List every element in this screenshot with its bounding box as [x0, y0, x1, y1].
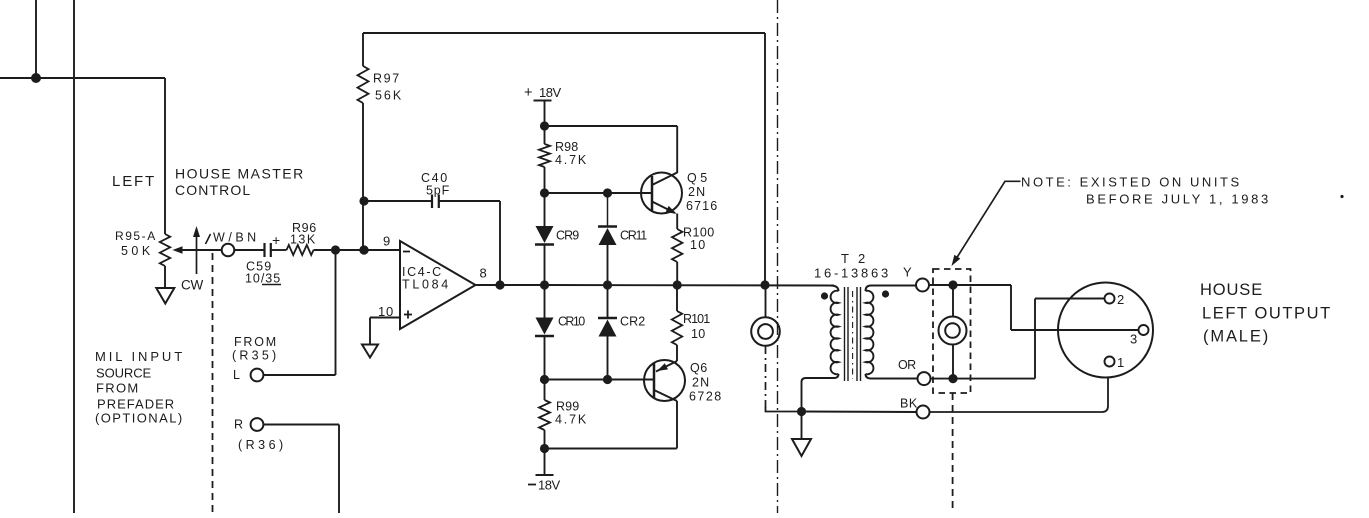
svg-text:Q6: Q6	[690, 361, 708, 375]
svg-text:(OPTIONAL): (OPTIONAL)	[95, 411, 183, 426]
svg-text:+: +	[272, 232, 281, 248]
svg-text:CR9: CR9	[556, 229, 580, 243]
svg-text:OR: OR	[898, 358, 917, 372]
svg-text:FROM: FROM	[234, 335, 277, 349]
svg-text:9: 9	[383, 234, 391, 249]
svg-text:R101: R101	[683, 312, 711, 326]
svg-text:Y: Y	[903, 265, 912, 280]
svg-text:HOUSE: HOUSE	[1200, 281, 1263, 299]
svg-text:8: 8	[480, 266, 488, 281]
svg-text:16-13863: 16-13863	[814, 266, 889, 281]
svg-text:(MALE): (MALE)	[1203, 328, 1269, 346]
svg-text:R: R	[234, 418, 244, 432]
svg-text:CONTROL: CONTROL	[175, 182, 251, 198]
svg-text:W/BN: W/BN	[213, 231, 257, 245]
svg-text:56K: 56K	[375, 89, 402, 103]
svg-text:4.7K: 4.7K	[555, 413, 587, 427]
svg-text:T 2: T 2	[841, 251, 866, 266]
svg-text:PREFADER: PREFADER	[97, 397, 175, 412]
svg-text:6716: 6716	[686, 199, 718, 213]
svg-text:18V: 18V	[539, 85, 562, 100]
svg-text:BEFORE JULY 1, 1983: BEFORE JULY 1, 1983	[1086, 192, 1269, 207]
svg-text:CW: CW	[181, 278, 204, 293]
svg-text:+: +	[524, 85, 533, 101]
svg-text:FROM: FROM	[96, 381, 139, 396]
svg-text:NOTE: EXISTED ON UNITS: NOTE: EXISTED ON UNITS	[1021, 175, 1240, 190]
svg-text:CR11: CR11	[620, 229, 648, 243]
svg-text:CR10: CR10	[558, 315, 586, 329]
svg-text:6728: 6728	[689, 390, 722, 404]
svg-text:SOURCE: SOURCE	[96, 366, 152, 381]
svg-text:4.7K: 4.7K	[555, 153, 587, 167]
svg-text:13K: 13K	[290, 233, 316, 247]
svg-text:R98: R98	[555, 140, 579, 154]
svg-text:2N: 2N	[692, 376, 710, 390]
svg-text:10: 10	[691, 327, 706, 341]
svg-text:Q5: Q5	[687, 171, 708, 185]
svg-text:50K: 50K	[121, 244, 151, 258]
svg-text:CR2: CR2	[620, 315, 646, 329]
svg-text:BK: BK	[900, 397, 918, 411]
svg-text:5pF: 5pF	[426, 184, 450, 198]
svg-text:LEFT OUTPUT: LEFT OUTPUT	[1202, 305, 1331, 323]
svg-text:2: 2	[1117, 292, 1125, 307]
svg-text:MIL INPUT: MIL INPUT	[95, 349, 183, 364]
svg-text:HOUSE MASTER: HOUSE MASTER	[175, 166, 304, 182]
svg-text:10: 10	[690, 238, 706, 252]
svg-text:R99: R99	[556, 400, 580, 414]
svg-text:3: 3	[1130, 332, 1138, 347]
svg-text:R97: R97	[373, 72, 400, 86]
svg-text:10/35: 10/35	[245, 272, 281, 286]
svg-text:18V: 18V	[538, 478, 561, 493]
svg-text:L: L	[233, 368, 241, 382]
svg-text:2N: 2N	[688, 185, 706, 199]
svg-text:TL084: TL084	[402, 278, 449, 292]
svg-text:LEFT: LEFT	[112, 173, 155, 190]
svg-text:1: 1	[1117, 355, 1125, 370]
svg-text:R95-A: R95-A	[115, 229, 156, 243]
